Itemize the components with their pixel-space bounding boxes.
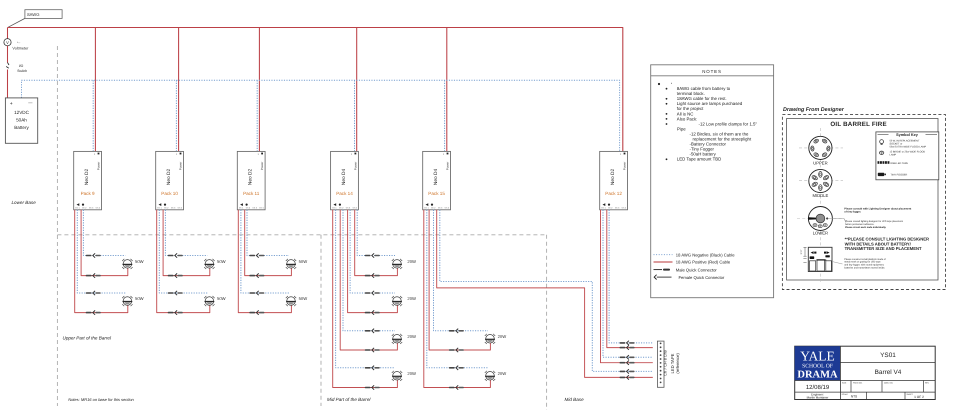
section boundary dashed line mid-base xyxy=(546,235,548,410)
svg-text:NTS: NTS xyxy=(851,395,857,399)
platform diagram xyxy=(808,247,832,271)
dimmer pack U15 Pack 15 Neo D4 xyxy=(423,151,451,209)
lamp P10 ch1 50W xyxy=(204,296,225,306)
svg-text:Barrel V4: Barrel V4 xyxy=(875,369,902,376)
wire red pack output P11 ch2 xyxy=(245,210,292,276)
wire red pack output P9 ch1 xyxy=(75,210,128,313)
connector pair on negative P15 ch2 xyxy=(449,329,464,333)
svg-text:Power: Power xyxy=(97,162,101,171)
designer dashed border xyxy=(782,115,945,290)
barrel plan UPPER circle xyxy=(809,136,832,165)
svg-text:LOWER: LOWER xyxy=(813,230,828,235)
legend negative cable xyxy=(654,254,673,256)
svg-text:Mid Base: Mid Base xyxy=(565,397,585,402)
svg-text:Neo D2: Neo D2 xyxy=(610,169,616,186)
svg-text:50Ah: 50Ah xyxy=(16,118,27,123)
wire red battery feed xyxy=(7,28,9,39)
wire blue drop to pack 14 xyxy=(354,80,356,151)
wire blue pack output P9 ch2 xyxy=(83,210,125,256)
svg-text:Please circuit each node indiv: Please circuit each node individually. xyxy=(845,226,886,229)
centerline vertical xyxy=(819,128,821,283)
callout platform note xyxy=(832,262,843,265)
wire red long run pack15 to LED tape xyxy=(437,210,653,378)
svg-text:Ch 1Ch 2Ch 3Ch 4: Ch 1Ch 2Ch 3Ch 4 xyxy=(239,206,265,209)
svg-text:Pack 15: Pack 15 xyxy=(428,191,445,196)
svg-text:Power: Power xyxy=(623,162,627,171)
wire blue pack output P14 ch4 xyxy=(357,210,395,256)
LED tape reference label xyxy=(670,353,680,374)
wire blue pack12 ch2 to LED tape xyxy=(609,210,653,343)
svg-text:SHEET: SHEET xyxy=(907,393,914,396)
svg-text:RGB LED TAPE: RGB LED TAPE xyxy=(891,162,909,165)
svg-text:batteries and transmitters sto: batteries and transmitters stored inside… xyxy=(844,266,885,269)
barrel plan MIDDLE circle xyxy=(809,169,832,198)
platform dimension marks xyxy=(800,247,807,262)
symbol key birdie item xyxy=(879,151,925,157)
svg-text:Ch 1Ch 2Ch 3Ch 4: Ch 1Ch 2Ch 3Ch 4 xyxy=(75,206,101,209)
svg-text:Drawing From Designer: Drawing From Designer xyxy=(783,107,845,113)
svg-text:50W: 50W xyxy=(135,259,144,264)
svg-text:1 OF 2: 1 OF 2 xyxy=(914,395,924,399)
lamp P14 ch1 20W xyxy=(392,371,416,381)
wire red pack12 ch2 to LED tape xyxy=(607,210,653,348)
svg-text:Upper Part of the Barrel: Upper Part of the Barrel xyxy=(63,335,112,340)
dimmer pack U11 Pack 11 Neo D2 xyxy=(237,151,265,209)
svg-text:Ch 1Ch 2Ch 3Ch 4: Ch 1Ch 2Ch 3Ch 4 xyxy=(601,206,627,209)
connector pair on negative P14 ch2 xyxy=(365,329,380,333)
lamp P10 ch2 50W xyxy=(204,259,225,269)
svg-text:18 AWG Negative (Black) Cable: 18 AWG Negative (Black) Cable xyxy=(676,252,735,257)
svg-text:DRAMA: DRAMA xyxy=(797,370,838,381)
wire blue pack output P10 ch1 xyxy=(159,210,207,293)
svg-text:OIL BARREL FIRE: OIL BARREL FIRE xyxy=(830,121,886,128)
svg-text:I/O: I/O xyxy=(19,64,24,68)
lamp P14 ch4 20W xyxy=(392,259,416,269)
title block frame xyxy=(795,346,936,399)
connector pair on negative P9 ch2 xyxy=(86,253,101,257)
wire red voltmeter to switch xyxy=(7,46,9,63)
svg-text:Pack 14: Pack 14 xyxy=(336,191,353,196)
svg-text:Pack 10: Pack 10 xyxy=(161,191,178,196)
title block date cell xyxy=(795,380,841,382)
connector pair on positive P14 ch1 xyxy=(365,385,380,389)
notes box xyxy=(651,65,774,298)
connector pair on negative P10 ch1 xyxy=(168,291,183,295)
svg-text:DWG. NO.: DWG. NO. xyxy=(884,381,894,384)
connector pair on positive P11 ch2 xyxy=(249,273,264,277)
connector pair on negative P14 ch1 xyxy=(365,366,380,370)
svg-text:50W: 50W xyxy=(299,259,308,264)
wire red switch to battery xyxy=(7,70,9,98)
connector pair on LED tape feed y347.6 xyxy=(620,345,635,349)
section boundary dashed line horizontal xyxy=(57,234,546,236)
svg-text:50W: 50W xyxy=(299,296,308,301)
connector pair on negative P14 ch4 xyxy=(365,253,380,257)
lamp P11 ch2 50W xyxy=(286,259,307,269)
svg-text:TRANSMITTER SIZE AND PLACEMENT: TRANSMITTER SIZE AND PLACEMENT xyxy=(845,246,922,251)
svg-text:Ch 1Ch 2Ch 3Ch 4: Ch 1Ch 2Ch 3Ch 4 xyxy=(332,206,358,209)
connector pair on positive P10 ch2 xyxy=(168,273,183,277)
svg-text:Also Pack:: Also Pack: xyxy=(677,116,698,121)
connector pair on LED tape feed y342.9 xyxy=(620,341,635,345)
svg-text:(reference): (reference) xyxy=(675,353,680,374)
connector pair on LED tape feed y357.3 xyxy=(620,355,635,359)
wire blue pack output P10 ch2 xyxy=(165,210,207,256)
svg-text:Symbol Key: Symbol Key xyxy=(896,133,919,137)
svg-text:before permanent adhesion.: before permanent adhesion. xyxy=(845,223,874,226)
centerline middle horizontal xyxy=(799,180,843,182)
connector pair on positive P11 ch1 xyxy=(249,310,264,314)
section boundary dashed line mid xyxy=(320,235,322,406)
title block yale logo xyxy=(795,346,841,380)
wire blue pack output P9 ch1 xyxy=(77,210,125,293)
lamp P14 ch2 20W xyxy=(392,334,416,344)
LED tape strip xyxy=(657,341,664,387)
svg-text:8AWG: 8AWG xyxy=(27,12,39,17)
connector pair on positive P15 ch1 xyxy=(449,385,464,389)
svg-text:and tiny fogger, with sound eq: and tiny fogger, with sound equipment, xyxy=(844,264,884,267)
connector pair on positive P14 ch3 xyxy=(365,310,380,314)
wire red drop to pack 14 xyxy=(356,28,358,152)
wire blue pack output P11 ch2 xyxy=(247,210,289,256)
designer inner box xyxy=(787,119,938,281)
svg-text:50W: 50W xyxy=(135,296,144,301)
svg-text:YALE: YALE xyxy=(800,348,835,363)
connector pair on LED tape feed y371.4 xyxy=(620,369,635,373)
wire blue pack12 ch1 to LED tape xyxy=(603,210,653,357)
wire red pack output P14 ch3 xyxy=(348,210,398,313)
svg-text:Neo D4: Neo D4 xyxy=(433,169,439,186)
svg-text:50w EXTRA WIDE FLOOD LAMP: 50w EXTRA WIDE FLOOD LAMP xyxy=(890,145,927,148)
svg-text:Pack 12: Pack 12 xyxy=(605,191,622,196)
connector pair on negative P9 ch1 xyxy=(86,291,101,295)
svg-text:12/08/19: 12/08/19 xyxy=(806,384,830,391)
svg-text:20W: 20W xyxy=(407,334,416,339)
svg-text:Lower Base: Lower Base xyxy=(12,200,37,205)
connector pair on negative P11 ch2 xyxy=(249,253,264,257)
wire red pack output P15 ch1 xyxy=(424,210,491,388)
wire blue drop to pack 15 xyxy=(444,80,446,151)
dimmer pack U14 Pack 14 Neo D4 xyxy=(331,151,359,209)
dimmer pack U10 Pack 10 Neo D2 xyxy=(156,151,184,209)
wire blue negative bus xyxy=(22,80,620,151)
wire red pack output P14 ch1 xyxy=(333,210,398,388)
symbol key tiny fogger item xyxy=(878,173,908,177)
svg-text:Pipe: Pipe xyxy=(677,126,686,131)
connector pair on positive P10 ch1 xyxy=(168,310,183,314)
symbol key box xyxy=(876,132,939,180)
dimmer pack U12 Pack 12 Neo D2 xyxy=(600,151,628,209)
connector pair on positive P14 ch2 xyxy=(365,348,380,352)
svg-text:TINY FOGGER: TINY FOGGER xyxy=(891,174,908,177)
wire red pack output P11 ch1 xyxy=(238,210,291,313)
wire red pack output P15 ch2 xyxy=(429,210,490,350)
wire blue drop to pack 10 xyxy=(175,80,177,151)
connector pair on negative P10 ch2 xyxy=(168,253,183,257)
svg-text:Pack 11: Pack 11 xyxy=(243,191,260,196)
svg-text:Power: Power xyxy=(446,162,450,171)
svg-text:metal mesh or grating for LED: metal mesh or grating for LED tape xyxy=(844,261,881,264)
wire blue pack output P15 ch2 xyxy=(434,210,489,331)
wire red pack output P10 ch1 xyxy=(157,210,210,313)
connector pair on positive P9 ch1 xyxy=(86,310,101,314)
wire red pack output P14 ch2 xyxy=(340,210,397,350)
svg-text:Martin Montaner: Martin Montaner xyxy=(807,396,829,400)
legend male quick connector xyxy=(654,267,718,272)
svg-text:YS01: YS01 xyxy=(880,352,896,359)
battery B1 12VDC 50Ah xyxy=(5,98,37,143)
lamp P9 ch2 50W xyxy=(122,259,143,269)
connector pair on negative P14 ch3 xyxy=(365,291,380,295)
wire blue drop to pack 11 xyxy=(256,80,258,151)
title block engineer cell xyxy=(795,391,841,393)
svg-text:50W: 50W xyxy=(217,296,226,301)
svg-text:20W: 20W xyxy=(407,371,416,376)
svg-text:12VDC: 12VDC xyxy=(14,110,29,115)
svg-text:Please construct small platfor: Please construct small platform made of xyxy=(844,258,886,261)
svg-text:Pack 9: Pack 9 xyxy=(81,191,95,196)
wire blue pack output P14 ch2 xyxy=(343,210,395,331)
I/O switch S1 xyxy=(6,63,27,74)
voltmeter V1 xyxy=(4,39,29,51)
svg-text:Power: Power xyxy=(353,162,357,171)
svg-text:Voltmeter: Voltmeter xyxy=(12,47,29,51)
dimmer pack U9 Pack 9 Neo D2 xyxy=(74,151,102,209)
wire blue long run pack15 to LED tape xyxy=(440,210,653,372)
svg-text:20W: 20W xyxy=(498,334,507,339)
wire red drop to pack 15 xyxy=(446,28,448,152)
svg-text:MIDDLE: MIDDLE xyxy=(812,193,828,198)
lamp P15 ch1 20W xyxy=(485,371,506,381)
svg-text:50W: 50W xyxy=(217,259,226,264)
svg-text:LED TAPE: LED TAPE xyxy=(670,353,675,373)
svg-text:FSCM NO.: FSCM NO. xyxy=(853,381,863,384)
svg-text:Ch 1Ch 2Ch 3Ch 4: Ch 1Ch 2Ch 3Ch 4 xyxy=(157,206,183,209)
svg-text:Please consult lighting design: Please consult lighting designer for LED… xyxy=(845,220,903,223)
svg-text:Neo D2: Neo D2 xyxy=(84,169,90,186)
svg-text:of tiny fogger.: of tiny fogger. xyxy=(844,211,861,214)
title block divider vertical xyxy=(839,346,841,399)
legend female quick connector xyxy=(654,275,725,280)
svg-text:Male Quick Connector: Male Quick Connector xyxy=(676,267,718,272)
svg-text:Notes: MR16 on base for this s: Notes: MR16 on base for this section xyxy=(68,397,134,402)
connector pair on negative P15 ch1 xyxy=(449,366,464,370)
svg-text:20W: 20W xyxy=(498,371,507,376)
wire red drop to pack 10 xyxy=(178,28,180,152)
svg-text:Neo D4: Neo D4 xyxy=(341,169,347,186)
svg-text:SCALE: SCALE xyxy=(842,393,849,396)
connector pair on positive P14 ch4 xyxy=(365,273,380,277)
wire red positive bus 8AWG xyxy=(8,28,623,152)
connector pair on negative P11 ch1 xyxy=(249,291,264,295)
barrel plan LOWER circle with fogger xyxy=(808,207,832,236)
svg-text:Female Quick Connector: Female Quick Connector xyxy=(679,275,725,280)
svg-text:+: + xyxy=(10,101,13,107)
svg-text:LED Tape amount TBD: LED Tape amount TBD xyxy=(677,157,722,162)
lamp P11 ch1 50W xyxy=(286,296,307,306)
svg-text:LAMP: LAMP xyxy=(890,154,897,157)
svg-text:1'-1": 1'-1" xyxy=(800,249,803,254)
svg-text:Ch 1Ch 2Ch 3Ch 4: Ch 1Ch 2Ch 3Ch 4 xyxy=(424,206,450,209)
label 8AWG callout box xyxy=(8,10,62,28)
connector pair on positive P15 ch2 xyxy=(449,348,464,352)
wire blue pack output P11 ch1 xyxy=(241,210,289,293)
connector pair on LED tape feed y362.7 xyxy=(620,361,635,365)
legend positive cable xyxy=(654,261,673,263)
svg-text:NOTES: NOTES xyxy=(702,69,722,74)
svg-text:20W: 20W xyxy=(407,259,416,264)
connector pair on LED tape feed y377.4 xyxy=(620,375,635,379)
svg-text:Mid Part of the Barrel: Mid Part of the Barrel xyxy=(327,397,371,402)
wire red pack output P14 ch4 xyxy=(355,210,398,276)
svg-text:Switch: Switch xyxy=(17,69,27,73)
wire red drop to pack 11 xyxy=(258,28,260,152)
centerline lower horizontal xyxy=(797,218,843,220)
centerline upper horizontal xyxy=(799,147,843,149)
wire blue pack output P14 ch3 xyxy=(350,210,395,293)
svg-text:18 AWG Positive (Red) Cable: 18 AWG Positive (Red) Cable xyxy=(676,260,731,265)
svg-text:Power: Power xyxy=(260,162,264,171)
svg-text:-12 Low profile clamps for 1.5: -12 Low profile clamps for 1.5" xyxy=(699,121,758,126)
connector pair on positive P9 ch2 xyxy=(86,273,101,277)
svg-text:Battery: Battery xyxy=(14,125,29,130)
symbol key lamp socket item xyxy=(880,139,927,148)
svg-text:Power: Power xyxy=(179,162,183,171)
title block scale sheet row xyxy=(842,392,924,399)
svg-text:UPPER: UPPER xyxy=(813,161,827,166)
wire blue pack output P15 ch1 xyxy=(427,210,488,368)
callout fogger line xyxy=(827,218,844,220)
svg-text:+,-: +,- xyxy=(17,41,20,44)
svg-text:Neo D2: Neo D2 xyxy=(248,169,254,186)
wire red pack output P9 ch2 xyxy=(81,210,128,276)
wire red pack12 ch1 to LED tape xyxy=(601,210,653,363)
wire blue drop to pack 9 xyxy=(92,80,94,151)
section boundary dashed line left xyxy=(56,46,58,406)
svg-text:V: V xyxy=(6,40,9,45)
lamp P15 ch2 20W xyxy=(485,334,506,344)
lamp P14 ch3 20W xyxy=(392,296,416,306)
svg-text:Ch 7 CH 8 Ch9: Ch 7 CH 8 Ch9 xyxy=(663,350,667,376)
wire red drop to pack 9 xyxy=(94,28,96,152)
notes bullet list xyxy=(658,83,758,162)
lamp P9 ch1 50W xyxy=(122,296,143,306)
svg-text:20W: 20W xyxy=(407,296,416,301)
symbol key RGB LED tape item xyxy=(878,161,909,165)
wire red pack output P10 ch2 xyxy=(163,210,210,276)
title block small cells row xyxy=(840,381,935,393)
wire blue pack output P14 ch1 xyxy=(336,210,395,368)
svg-text:SIZE: SIZE xyxy=(842,381,847,384)
svg-text:Neo D2: Neo D2 xyxy=(166,169,172,186)
